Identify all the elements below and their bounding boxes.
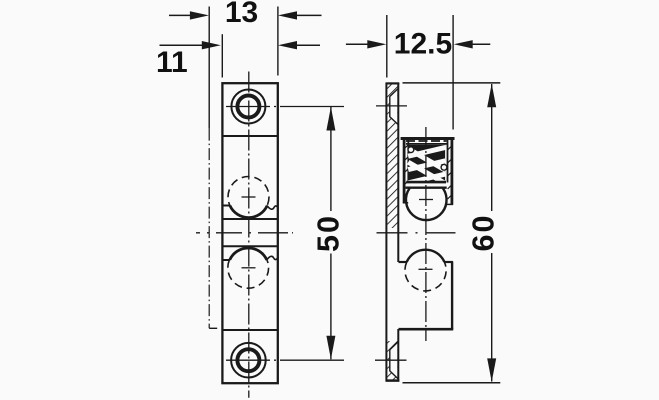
plate divider line below top screw section bbox=[222, 135, 278, 137]
svg-text:13: 13 bbox=[225, 0, 258, 29]
dimension 12.5 right arrow bbox=[454, 40, 491, 48]
upper ball side view bbox=[406, 188, 447, 220]
upper housing right wall outer bbox=[450, 139, 453, 205]
upper housing left wall bottom cap bbox=[403, 202, 408, 204]
slot upper edge right squiggle bbox=[267, 206, 278, 210]
bottom screw hole inner circle bbox=[237, 349, 259, 371]
extension line 12.5 left bbox=[386, 15, 388, 78]
ball retainer lip lower line bbox=[406, 186, 447, 188]
dimension 11 dim line right arrow bbox=[278, 41, 320, 49]
plate outline front view bbox=[222, 83, 277, 383]
horizontal middle centerline side view bbox=[377, 232, 458, 234]
left wall hatch ticks bbox=[404, 145, 408, 185]
bottom screw hole centerline side view bbox=[375, 359, 407, 361]
dimension 60 dim line bbox=[487, 84, 496, 382]
60 top extension line bbox=[403, 82, 501, 84]
extension line 12.5 right bbox=[452, 15, 454, 130]
bottom screw hole countersink cone upper bbox=[390, 342, 398, 350]
top screw hole countersink rim bbox=[389, 96, 391, 117]
dimension 12.5 left arrow bbox=[346, 40, 386, 48]
mounting plate section (hatched) bbox=[387, 84, 398, 379]
svg-text:50: 50 bbox=[312, 214, 346, 252]
plate top edge bbox=[386, 82, 400, 84]
bottom hole centerline / 50 extension bbox=[226, 359, 344, 361]
bottom screw hole countersink rim bbox=[389, 350, 391, 372]
upper ball center tick side view bbox=[419, 199, 433, 201]
top hole centerline / 50 extension bbox=[226, 106, 344, 108]
extension line 13/11 right bbox=[277, 7, 279, 76]
lower ball center tick front view bbox=[242, 267, 256, 269]
upper housing right wall bottom cap bbox=[447, 203, 453, 205]
lower ball center tick side view bbox=[419, 268, 433, 270]
extension line 11 left bbox=[221, 34, 223, 77]
plate hatch mask: bottom screw hole bbox=[390, 342, 398, 378]
vertical centerline side view bbox=[425, 127, 427, 341]
plate hatch mask: middle unhatched zone bbox=[387, 228, 399, 341]
housing edge line over lower ball bbox=[222, 245, 278, 247]
bottom screw hole countersink cone lower bbox=[390, 371, 398, 379]
lower housing box bottom step edge bbox=[399, 328, 454, 331]
lower housing box top edge right segment bbox=[444, 261, 453, 263]
bottom screw hole outer circle bbox=[231, 343, 266, 378]
top screw hole inner circle bbox=[237, 96, 259, 118]
extension line 13 left bbox=[208, 7, 210, 129]
spring wire end circle bottom bbox=[441, 164, 447, 170]
top screw hole centerline side view bbox=[376, 105, 407, 107]
lower ball protruding arc bbox=[230, 248, 267, 260]
upper housing left wall inner bbox=[407, 139, 409, 183]
upper housing right wall inner bbox=[447, 139, 449, 183]
vertical centerline front view bbox=[248, 72, 250, 398]
dimension 13 dim line left arrow bbox=[169, 11, 209, 19]
housing edge line under upper ball bbox=[222, 218, 278, 220]
lower housing box right edge bbox=[451, 262, 453, 330]
phantom chain line at housing depth with foot bbox=[208, 129, 210, 329]
upper housing top edge bbox=[401, 137, 455, 140]
slot lower edge (interrupted by ball) bbox=[222, 259, 230, 261]
top screw hole outer circle bbox=[231, 90, 265, 124]
dimension 50 dim line bbox=[326, 107, 335, 359]
dimension 11 dim line left arrow bbox=[160, 41, 221, 49]
spring coil section bbox=[408, 145, 445, 184]
right wall hatch ticks bbox=[448, 146, 452, 199]
spring retainer dashed line bbox=[406, 140, 447, 142]
upper ball hidden circle bbox=[228, 177, 269, 218]
plate right edge lower part bbox=[397, 329, 399, 381]
ball retainer lip upper line bbox=[406, 181, 446, 184]
slot upper edge (interrupted by ball) bbox=[222, 205, 230, 207]
spring wire end circle top bbox=[408, 147, 414, 153]
plate right edge upper part bbox=[397, 83, 399, 262]
upper ball protruding arc bbox=[230, 206, 267, 218]
lower ball protruding arc side view bbox=[407, 250, 445, 262]
top screw hole countersink cone upper bbox=[390, 89, 398, 97]
svg-text:11: 11 bbox=[156, 46, 188, 79]
60 bottom extension line bbox=[403, 382, 501, 384]
plate divider line above bottom screw section bbox=[222, 329, 278, 331]
plate left edge bbox=[385, 83, 387, 381]
lower housing box top edge left segment bbox=[399, 261, 407, 263]
spring top seat line bbox=[406, 143, 447, 145]
lower ball hidden circle side view bbox=[405, 262, 446, 291]
top screw hole countersink cone lower bbox=[390, 117, 398, 125]
plate hatch mask: top screw hole bbox=[390, 89, 398, 124]
svg-text:12.5: 12.5 bbox=[394, 27, 452, 60]
lower ball hidden circle bbox=[228, 247, 269, 288]
dimension 13 dim line right arrow bbox=[278, 11, 322, 19]
horizontal middle centerline front view bbox=[196, 232, 293, 234]
upper housing left wall outer bbox=[403, 139, 406, 203]
plate bottom edge bbox=[386, 379, 400, 382]
svg-text:60: 60 bbox=[467, 214, 501, 252]
slot lower edge right squiggle bbox=[267, 256, 279, 260]
upper ball center tick front view bbox=[242, 196, 256, 198]
